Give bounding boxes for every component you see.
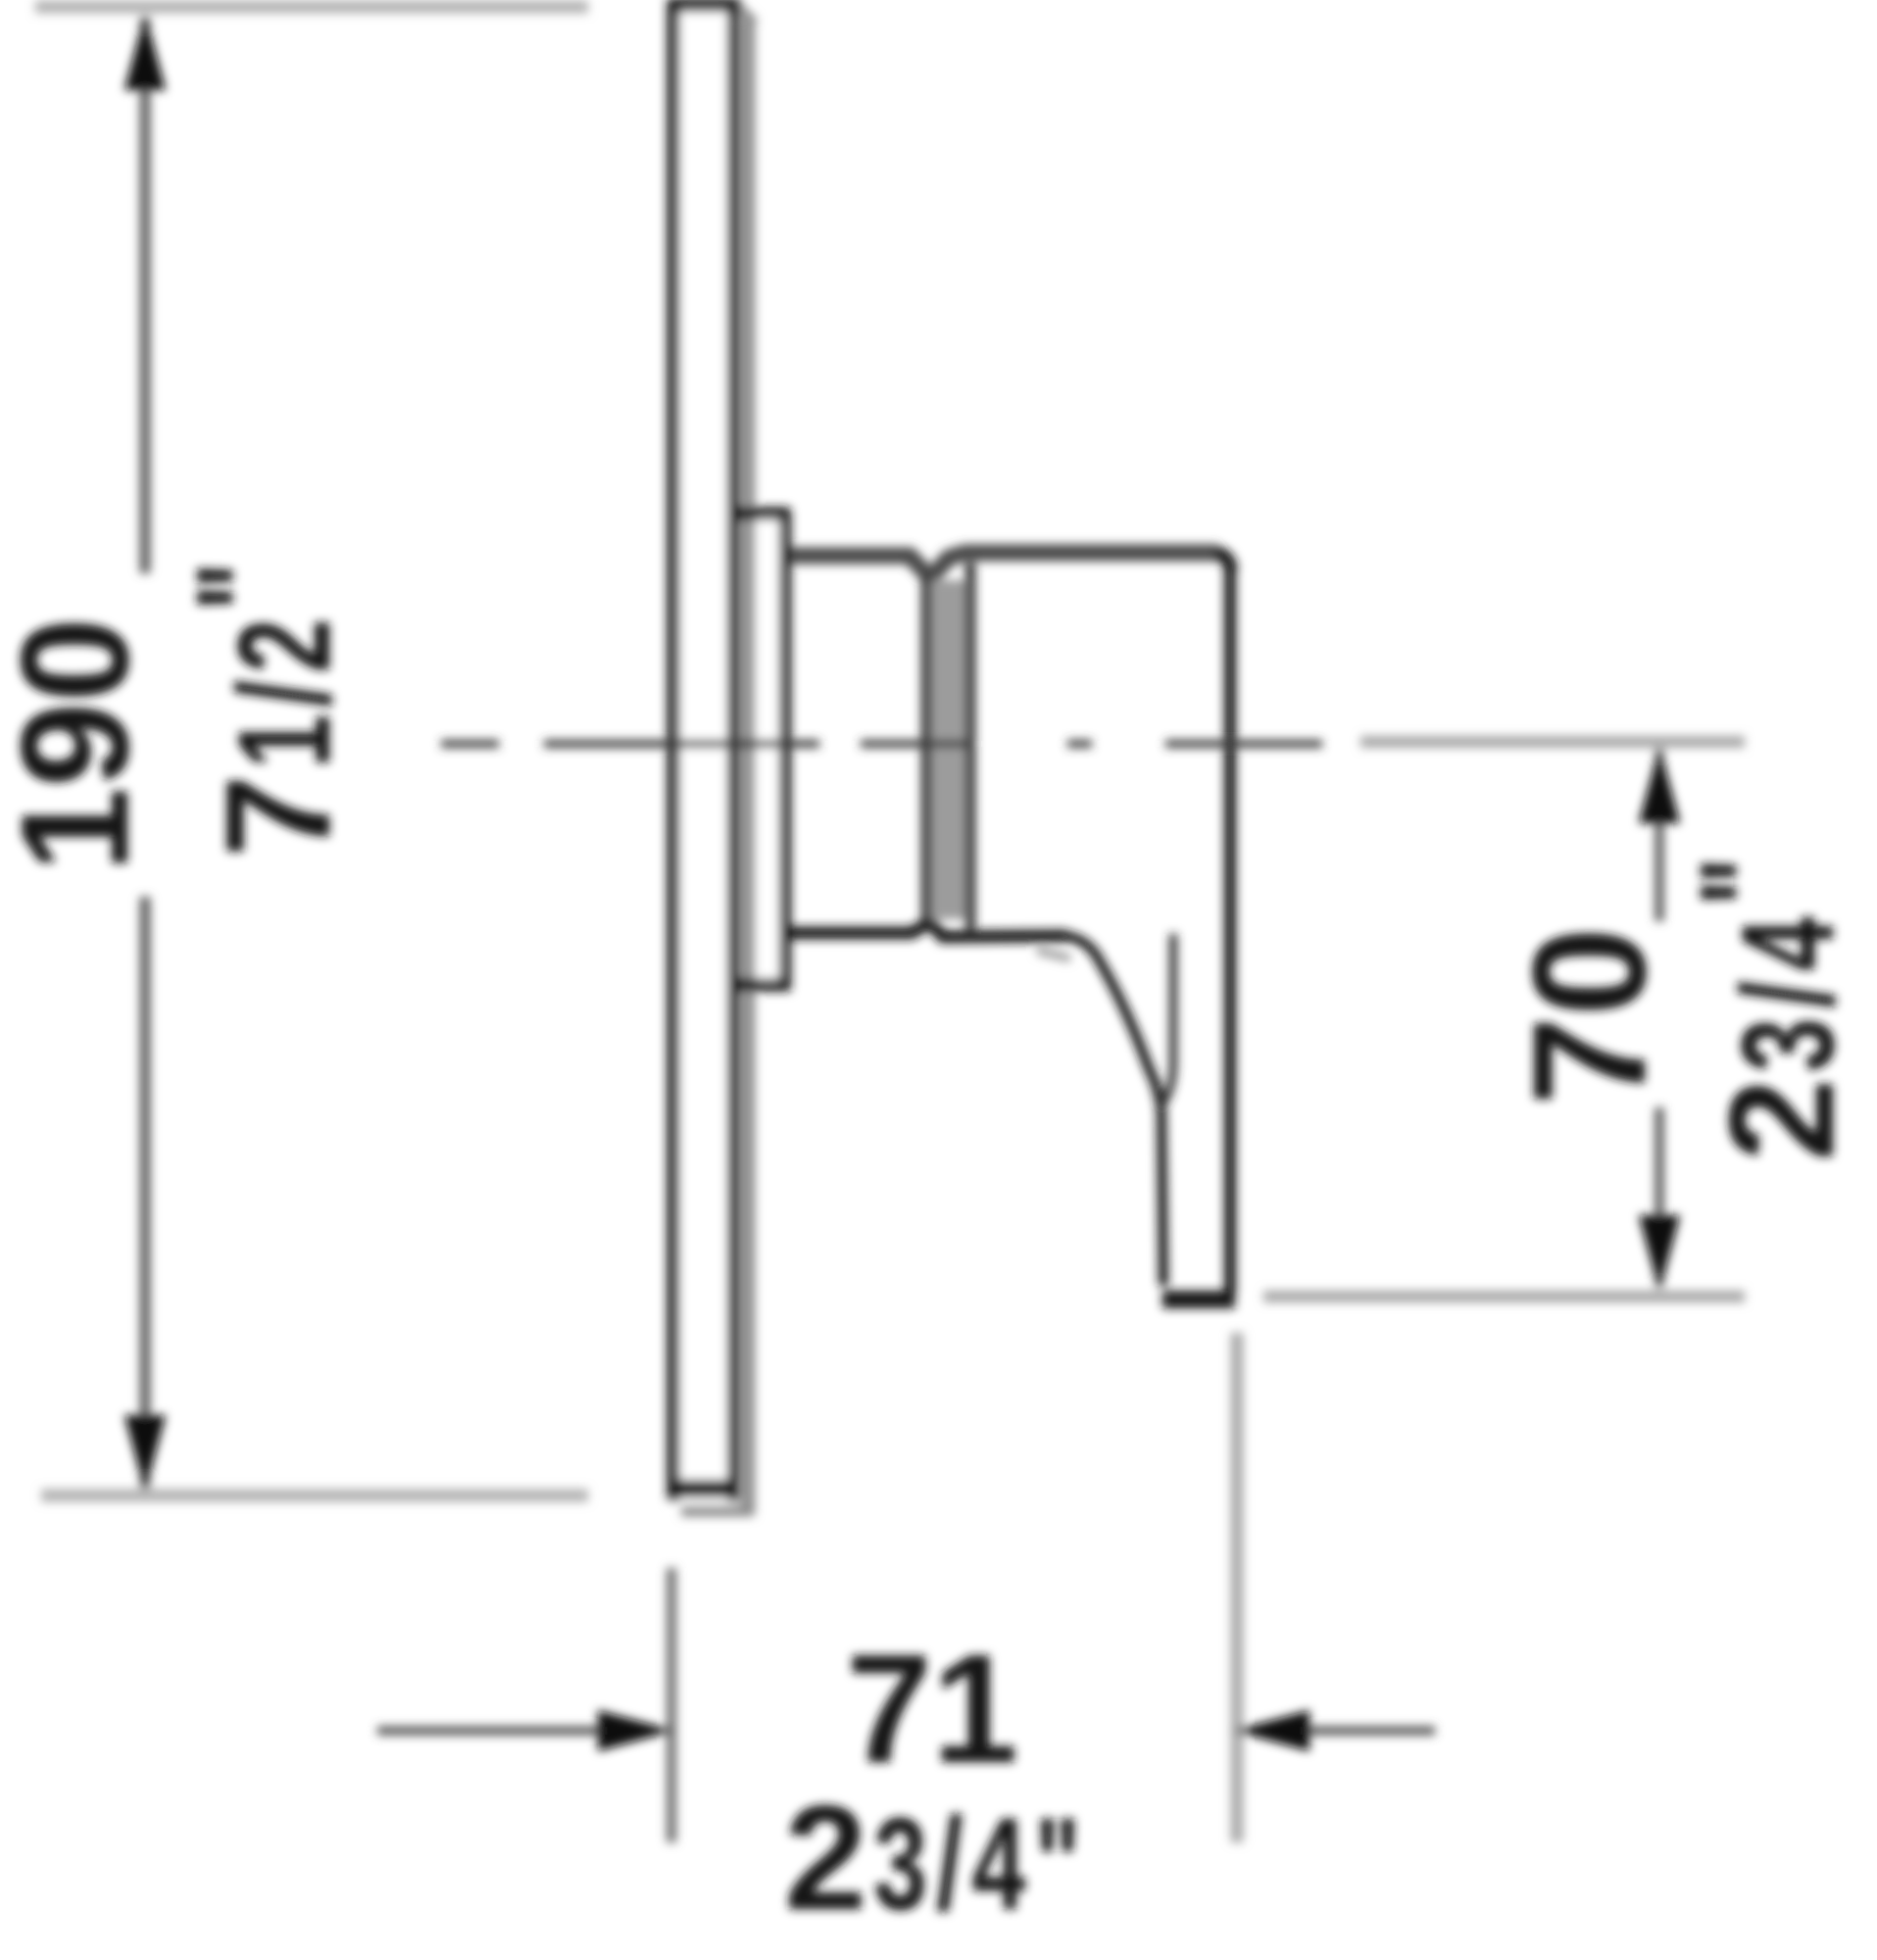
- handle outer curve: [1067, 936, 1163, 1286]
- flange right edge: [779, 509, 791, 991]
- wall plate left edge: [667, 0, 680, 1501]
- arrow left (71 right): [1233, 1710, 1309, 1751]
- dimension line 190 vertical: [140, 18, 151, 573]
- groove fill: [931, 580, 966, 919]
- wall plate bottom shadow: [681, 1506, 753, 1517]
- label 2 3/4 inch bottom: [784, 1775, 1089, 1941]
- label 7 1/2 inch: [168, 555, 362, 857]
- handle lever inner line: [1160, 934, 1173, 1107]
- body section 2 bottom edge: [930, 922, 1067, 937]
- svg-text:70: 70: [1500, 927, 1679, 1105]
- center line dash-dot: [441, 740, 1322, 748]
- svg-text:3/4": 3/4": [873, 1789, 1089, 1936]
- handle neck shadow: [1037, 951, 1070, 958]
- wall plate right edge: [727, 0, 739, 1501]
- extension line bottom (plate bottom level): [41, 1490, 588, 1502]
- wall plate shadow top diagonal: [737, 6, 755, 24]
- body right corner: [1215, 553, 1231, 570]
- extension line top (plate top level): [35, 1, 588, 14]
- arrow up (190 top): [124, 14, 166, 90]
- arrow down (190 bottom): [124, 1415, 166, 1492]
- groove left line: [921, 576, 931, 925]
- handle bottom cap: [1162, 1291, 1235, 1308]
- extension line bottom-left vertical (71 left ref): [667, 1568, 676, 1842]
- flange top cap: [733, 508, 789, 520]
- body section 2 top edge: [930, 553, 1218, 578]
- flange white fill: [756, 519, 779, 980]
- body section 1 top edge: [790, 556, 930, 578]
- groove right line: [965, 563, 975, 929]
- label 2 3/4 inch right: [1671, 847, 1865, 1161]
- handle bottom extension line (70 bottom ref): [1263, 1291, 1745, 1302]
- center extension line right (70 top ref): [1360, 736, 1745, 748]
- svg-text:71: 71: [846, 1623, 1018, 1795]
- wall plate top cap: [667, 0, 741, 12]
- wall plate bottom cap: [668, 1480, 739, 1497]
- wall plate right shadow: [741, 20, 756, 1515]
- arrow up (70 top): [1639, 747, 1680, 823]
- wall plate white fill: [669, 0, 738, 1504]
- svg-text:190: 190: [0, 617, 161, 872]
- svg-text:2: 2: [784, 1775, 867, 1941]
- svg-text:7: 7: [195, 774, 362, 857]
- body right edge: [1224, 566, 1236, 1294]
- dimension line 70 vertical: [1655, 750, 1664, 921]
- dimension line 71 horizontal: [377, 1727, 627, 1736]
- arrow down (70 bottom): [1639, 1215, 1680, 1292]
- flange bottom cap: [733, 979, 789, 992]
- body section 1 bottom edge: [790, 922, 930, 933]
- svg-text:2: 2: [1699, 1078, 1865, 1161]
- arrow right (71 left): [598, 1710, 674, 1751]
- extension line bottom-right vertical (71 right ref): [1231, 1333, 1244, 1842]
